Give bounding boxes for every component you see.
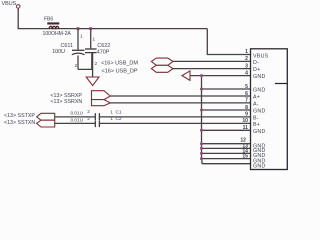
svg-text:0.01U: 0.01U xyxy=(71,111,84,116)
wire pin 8 stub xyxy=(202,109,251,111)
svg-text:1: 1 xyxy=(93,37,96,42)
capacitor C622 xyxy=(85,29,97,70)
wire pin 15 stub xyxy=(202,158,251,160)
capacitor C1 xyxy=(95,113,99,120)
svg-text:8: 8 xyxy=(245,105,248,111)
junction pin 15 xyxy=(200,157,203,160)
connector J1 body xyxy=(251,49,288,170)
svg-text:VBUS: VBUS xyxy=(2,1,17,7)
port arrow SSTXP xyxy=(37,113,55,120)
svg-text:C622: C622 xyxy=(97,43,110,49)
port arrow SSRXP xyxy=(92,91,111,100)
ferrite bead FB6 xyxy=(47,22,59,28)
wire GND to pin 4 xyxy=(190,75,251,77)
port arrow SSRXN xyxy=(92,100,111,106)
capacitor C2 xyxy=(95,120,99,127)
svg-text:A+: A+ xyxy=(253,95,260,101)
svg-text:0.01U: 0.01U xyxy=(71,117,84,122)
wire GND bus vertical xyxy=(201,76,203,164)
connector key dash xyxy=(275,83,287,85)
VBUS terminal circle xyxy=(16,5,20,9)
svg-text:GND: GND xyxy=(253,74,266,80)
svg-text:D+: D+ xyxy=(253,67,260,73)
wire pin 16 stub xyxy=(202,163,251,165)
svg-text:2: 2 xyxy=(245,56,248,62)
svg-text:15: 15 xyxy=(242,154,248,160)
svg-text:12: 12 xyxy=(240,137,246,143)
junction pin 12 xyxy=(200,142,203,145)
wire pin 5 stub xyxy=(202,88,251,90)
svg-text:B+: B+ xyxy=(253,122,260,128)
svg-text:GND: GND xyxy=(253,164,266,170)
svg-text:6: 6 xyxy=(245,91,248,97)
junction at C611 xyxy=(77,27,80,30)
svg-text:1: 1 xyxy=(245,49,248,55)
svg-text:4: 4 xyxy=(245,70,248,76)
svg-text:1: 1 xyxy=(80,34,83,39)
junction pin 4 xyxy=(200,74,203,77)
svg-text:11: 11 xyxy=(243,125,249,131)
port arrow GND left xyxy=(182,71,190,81)
svg-text:470P: 470P xyxy=(97,49,110,55)
wire caps to ground xyxy=(78,53,93,77)
junction pin 8 xyxy=(200,109,203,112)
wire pin 11 stub xyxy=(202,129,251,131)
svg-text:GND: GND xyxy=(253,129,266,135)
svg-text:B-: B- xyxy=(253,116,259,122)
wire SSRXP to pin 6 xyxy=(110,95,250,97)
svg-text:2: 2 xyxy=(95,61,98,66)
wire USB_DM to pin 2 xyxy=(173,60,251,62)
svg-text:2: 2 xyxy=(75,63,78,68)
junction pin 14 xyxy=(200,152,203,155)
svg-text:GND: GND xyxy=(253,109,266,115)
wire pin 13 stub xyxy=(202,147,251,149)
wire SSTXN to C2 xyxy=(55,122,96,124)
wire C2 to pin 10 xyxy=(99,122,250,124)
junction at C622 xyxy=(89,27,92,30)
svg-text:<16> USB_DM: <16> USB_DM xyxy=(101,60,138,66)
wire VBUS vertical and main horizontal xyxy=(18,8,207,28)
svg-text:100U: 100U xyxy=(52,49,65,55)
junction pin 13 xyxy=(200,147,203,150)
svg-text:A-: A- xyxy=(253,102,259,108)
svg-text:VBUS: VBUS xyxy=(253,53,269,59)
svg-text:GND: GND xyxy=(253,88,266,94)
svg-text:1: 1 xyxy=(110,109,113,114)
junction pin 5 xyxy=(200,88,203,91)
port arrow USB_DP xyxy=(151,65,173,72)
svg-text:C2: C2 xyxy=(116,116,122,121)
wire pin 12 stub xyxy=(202,143,251,145)
svg-text:3: 3 xyxy=(245,63,248,69)
svg-text:2: 2 xyxy=(87,116,90,121)
ground xyxy=(86,77,99,86)
port arrow SSTXN xyxy=(37,120,55,127)
svg-text:<13> SSTXP: <13> SSTXP xyxy=(4,113,35,119)
wire SSRXN to pin 7 xyxy=(110,102,250,104)
wire C1 to pin 9 xyxy=(99,116,250,118)
svg-text:FB6: FB6 xyxy=(44,17,53,23)
svg-text:2: 2 xyxy=(87,109,90,114)
svg-text:C1: C1 xyxy=(116,110,122,115)
junction pin 11 xyxy=(200,129,203,132)
wire pin 14 stub xyxy=(202,152,251,154)
svg-text:D-: D- xyxy=(253,60,259,66)
svg-text:1: 1 xyxy=(110,116,113,121)
capacitor C611 xyxy=(72,29,85,70)
wire SSTXP to C1 xyxy=(55,116,96,118)
svg-text:10: 10 xyxy=(242,118,248,124)
wire USB_DP to pin 3 xyxy=(173,68,251,70)
port arrow USB_DM xyxy=(151,58,173,65)
svg-text:7: 7 xyxy=(245,98,248,104)
svg-text:100OHM-2A: 100OHM-2A xyxy=(43,31,72,37)
svg-text:<13> SSRXN: <13> SSRXN xyxy=(50,99,82,105)
svg-text:<13> SSTXN: <13> SSTXN xyxy=(4,120,35,126)
wire VBUS to pin 1 xyxy=(207,29,250,55)
svg-text:<16> USB_DP: <16> USB_DP xyxy=(102,69,138,75)
svg-text:9: 9 xyxy=(245,112,248,118)
svg-text:5: 5 xyxy=(245,84,248,90)
